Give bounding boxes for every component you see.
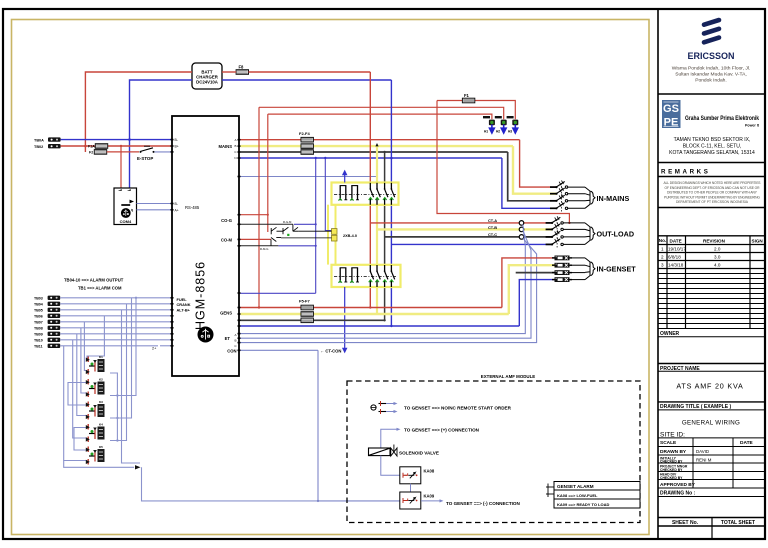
terminal TB0A [48,137,61,141]
svg-text:H1: H1 [484,130,488,134]
controller right pin ticks [238,140,241,351]
wire RS485 A+ [137,209,173,211]
title block left edge [657,9,659,539]
remarks note text [664,181,762,204]
svg-text:No.: No. [659,238,666,243]
svg-text:KA08 ==> LOW-FUEL: KA08 ==> LOW-FUEL [557,493,598,498]
alarm note text [64,278,124,291]
wire CO-G red [241,214,268,216]
wire KA09 out blue [421,500,440,502]
svg-text:PURPOSE WITHOUT PERMIT UNDERWR: PURPOSE WITHOUT PERMIT UNDERWRITING BY E… [664,195,760,199]
svg-text:TO GENSET ==> (+) CONNECTION: TO GENSET ==> (+) CONNECTION [404,427,480,432]
svg-text:DATE: DATE [670,238,682,243]
svg-text:F5-F7: F5-F7 [299,299,310,304]
wire in-genset rise A red [502,258,555,308]
wire sense loop return blue [241,292,316,294]
svg-text:DRAWING TITLE ( EXAMPLE ): DRAWING TITLE ( EXAMPLE ) [660,404,731,410]
wire genset feed vertical 2 red [267,114,269,232]
fuse F8 [236,70,248,75]
svg-text:2: 2 [661,254,664,259]
svg-text:REVISION: REVISION [703,238,726,243]
svg-text:TB03: TB03 [34,296,43,300]
wire N tap blue to coil [325,158,331,231]
wire mains A red [241,139,520,141]
wire DC- blue top [130,80,392,188]
relay KA08 [400,467,421,484]
wire red to COM4 [120,146,122,188]
svg-text:B-: B- [175,138,178,142]
svg-text:3: 3 [661,262,664,267]
wire load C black with CT [385,236,520,238]
controller left pin ticks [171,140,174,346]
wire interlock black G [241,223,293,225]
wire pole A red vertical [369,72,371,183]
border frame inner gold [12,20,650,535]
svg-text:CRANK: CRANK [177,302,191,307]
svg-text:ALL DESIGN DRAWINGS WHICH NOTE: ALL DESIGN DRAWINGS WHICH NOTED HERE ARE… [664,181,762,185]
controller right labels [219,144,237,353]
svg-text:F1: F1 [464,93,470,98]
relay KA04 [86,424,105,442]
svg-text:CHECKED BY: CHECKED BY [660,468,683,472]
wire KA08 to KA09 blue [410,484,412,492]
svg-text:ET: ET [225,336,231,341]
GSPE address [669,137,755,156]
svg-text:Wisma Pondok Indah, 10th Floor: Wisma Pondok Indah, 10th Floor, Jl. [672,66,751,72]
Ericsson address [672,66,751,84]
wire mains B yellow [241,145,514,147]
Ericsson logo [704,20,719,42]
controller USB port [198,327,214,343]
wire in-mains drop A red [520,140,557,187]
svg-text:N: N [234,156,236,160]
svg-text:ATS AMF 20 KVA: ATS AMF 20 KVA [676,382,743,391]
svg-text:R-G-M: R-G-M [283,220,292,224]
wire plus connection blue [381,429,397,448]
wire load N blue [391,243,552,245]
svg-text:B: B [234,338,236,342]
svg-text:ALT-B+: ALT-B+ [177,308,191,313]
wire CON drop to KA09 [318,350,400,501]
relay KA05 [86,447,105,465]
wire in-mains drop B yellow [513,146,557,194]
controller U1 HGM-8856 [172,116,239,376]
svg-text:F2-F4: F2-F4 [299,131,310,136]
svg-text:R-M-G: R-M-G [260,247,268,251]
switch E-STOP [137,146,155,161]
relay KA01 [86,357,105,375]
svg-text:← CT-CON: ← CT-CON [320,349,341,354]
svg-text:19/10/17: 19/10/17 [668,246,686,251]
svg-text:IN-MAINS: IN-MAINS [597,194,630,203]
controller input labels [177,297,191,313]
svg-text:GENS: GENS [220,310,232,315]
svg-text:B+: B+ [175,145,179,149]
terminal TB03..TB11 rows [34,296,43,348]
svg-text:FUEL: FUEL [177,297,188,302]
battery charger BC1 [192,63,222,89]
svg-text:SOLENOID VALVE: SOLENOID VALVE [399,451,439,456]
wire CT secondary A [241,224,526,333]
svg-text:SIGN: SIGN [752,238,764,243]
wire e-stop to controller [155,151,173,153]
controller RS-485 labels [175,202,200,212]
svg-text:MAINS: MAINS [219,144,233,149]
node junction DC blue [128,138,131,141]
svg-text:TB11: TB11 [34,344,43,348]
svg-text:14/3/18: 14/3/18 [668,262,684,267]
terminal TB02 [48,144,61,148]
svg-text:TB05: TB05 [34,308,43,312]
svg-text:TB0A: TB0A [34,138,44,142]
svg-text:DISTRIBUTED TO OTHER PEOPLE OR: DISTRIBUTED TO OTHER PEOPLE OR COMPANY W… [667,191,758,195]
wire mains N blue [241,157,502,159]
coil KM1 [332,229,338,235]
CT-A transformer [519,221,524,226]
svg-text:OUT-LOAD: OUT-LOAD [597,229,635,238]
wire in-genset rise B yellow [509,265,555,314]
lamp H1 [489,120,495,126]
wire CT secondary B [241,231,532,338]
svg-text:3.0: 3.0 [714,254,721,259]
svg-text:K3: K3 [99,400,103,404]
svg-text:BLOCK C-11, KEL. SETU,: BLOCK C-11, KEL. SETU, [683,144,742,150]
svg-text:K5: K5 [99,445,103,449]
wire genset B yellow [241,313,509,315]
svg-text:1: 1 [661,246,664,251]
coil KM2 [332,235,338,241]
svg-text:GENSET ALARM: GENSET ALARM [557,484,594,489]
svg-text:Power It: Power It [745,124,760,128]
svg-text:F1A: F1A [88,145,95,149]
wire aux arrow top blue [343,171,347,183]
wire CT secondary C [241,238,537,342]
wire genset A red [241,307,502,309]
fuse F1A [95,144,107,149]
wire battery plus red [61,145,96,147]
svg-text:EXTERNAL AMF MODULE: EXTERNAL AMF MODULE [481,374,535,379]
svg-text:OWNER: OWNER [660,331,680,337]
svg-text:SCALE: SCALE [660,440,677,446]
wire relay web blue [64,298,140,463]
svg-text:CHECKED BY: CHECKED BY [660,476,683,480]
svg-text:2.0: 2.0 [714,246,721,251]
svg-text:A: A [234,333,236,337]
wire genset N blue [241,325,520,327]
wire interlock black M [241,245,279,247]
wire load A red with CT [370,222,519,224]
svg-text:A: A [234,138,236,142]
svg-text:CO-M: CO-M [221,238,233,243]
wire lamp feed 2 red [268,114,492,119]
scale/date table [658,438,765,488]
svg-text:DAVID: DAVID [696,449,709,454]
svg-text:REMARKS: REMARKS [661,169,710,176]
svg-text:K2: K2 [99,377,103,381]
contactor KM1 poles [334,183,396,205]
svg-text:TB10: TB10 [34,338,43,342]
svg-text:TB08: TB08 [34,326,43,330]
svg-text:E-STOP: E-STOP [137,156,153,161]
lamp down arrows blue [490,125,518,134]
svg-text:CT-C: CT-C [488,232,497,237]
lamp phase tags [483,116,514,118]
svg-text:TB06: TB06 [34,314,43,318]
wire battery minus blue [61,139,172,141]
wire load bypass red [437,101,569,223]
svg-text:KA09 ==> READY TO LOAD: KA09 ==> READY TO LOAD [557,502,610,507]
svg-text:SHEET No.: SHEET No. [672,520,699,526]
wire lamp feed 1 red [259,107,504,119]
svg-text:DC24V10A: DC24V10A [196,80,218,85]
remote start contact [371,401,398,414]
wire coil column yellow [327,205,329,265]
wire in-mains drop N blue [502,158,557,208]
svg-text:H2: H2 [496,130,500,134]
svg-text:CT-B: CT-B [488,225,497,230]
wire interlock blue link [294,223,316,225]
svg-text:CO-G: CO-G [221,218,232,223]
svg-text:K1: K1 [99,355,103,359]
svg-text:COM4: COM4 [120,219,132,224]
connector IN-GENSET terminals [552,256,595,283]
wire relay to KA09 blue [142,467,319,501]
wire CON blue [241,349,319,351]
svg-text:H3: H3 [508,130,512,134]
svg-text:2XB-4.0: 2XB-4.0 [343,234,357,238]
contactor KM2 genset highlight box [332,265,401,287]
svg-text:DEPARTEMENT OF PT ERICSSON IND: DEPARTEMENT OF PT ERICSSON INDONESIA [676,200,749,204]
CT-B transformer [519,227,524,232]
svg-text:OF ENGINEERING DEPT. OF ERICSS: OF ENGINEERING DEPT. OF ERICSSON AND CAN… [665,186,761,190]
svg-text:IN-GENSET: IN-GENSET [597,264,637,273]
wire alarm rows blue [60,298,170,346]
svg-text:A+: A+ [175,208,179,212]
sheet row [658,517,765,519]
relay KA09 [400,492,421,509]
wire DC+ red top [85,72,370,152]
svg-text:CON: CON [227,348,236,353]
wire mains C black [241,151,508,153]
svg-text:4.0: 4.0 [714,262,721,267]
svg-text:TAMAN TEKNO BSD SEKTOR IX,: TAMAN TEKNO BSD SEKTOR IX, [674,137,751,143]
svg-text:TB04: TB04 [34,302,43,306]
COM4 converter box [114,188,137,225]
svg-text:F8: F8 [239,65,245,70]
fuse block F2-F4 [299,131,313,155]
wire pole N blue vertical [390,80,392,183]
controller pin labels left top [175,138,179,148]
wire RS485 B- [137,203,173,205]
contactor KM2 poles [334,265,396,287]
lamp H3 [512,120,518,126]
fuse F2 [94,150,106,155]
wire CO-M red [241,238,272,240]
svg-text:RS-485: RS-485 [185,205,200,210]
wire in-genset rise N blue [519,280,554,326]
svg-text:B-: B- [175,202,178,206]
svg-text:Pondok Indah.: Pondok Indah. [695,78,727,84]
node junction DC red [84,145,87,148]
wire alarm com bottom blue [64,461,134,468]
wire genset feed vertical red [258,107,260,307]
svg-text:B: B [234,144,236,148]
wire solenoid to KA08 blue [381,456,400,476]
wire in-genset rise C black [516,272,555,274]
svg-text:CHECKED BY: CHECKED BY [660,459,683,463]
fuse F1 [462,98,474,103]
wire aux sense blue thin [241,176,378,178]
connector OUT-LOAD breakers [546,216,595,248]
svg-text:HGM-8856: HGM-8856 [194,261,208,330]
svg-text:KA08: KA08 [424,468,435,473]
wire lamp feed 3 red via F1 [437,100,463,102]
svg-text:DRAWING No :: DRAWING No : [660,491,696,497]
svg-text:KA09: KA09 [424,494,435,499]
GSPE logo [662,100,760,129]
svg-text:GS: GS [663,103,679,115]
svg-text:TB07: TB07 [34,320,43,324]
wire in-mains drop C black [508,152,557,201]
connector IN-MAINS breakers [550,181,595,213]
contactor KM1 mains highlight box [332,183,399,205]
relay KA03 [86,402,105,420]
wire e-stop red [107,151,139,153]
svg-text:K4: K4 [99,422,103,426]
interlock contact cluster [271,224,332,246]
CT-C transformer [519,235,524,240]
svg-text:6/8/18: 6/8/18 [668,254,681,259]
relay KA02 [86,379,105,397]
svg-text:TO GENSET ==> NO/NC REMOTE STA: TO GENSET ==> NO/NC REMOTE START ORDER [404,406,512,411]
external AMF module dashed box [347,381,640,523]
wire pole B yellow vertical [376,146,378,182]
svg-text:TB04-10 ==> ALARM OUTPUT: TB04-10 ==> ALARM OUTPUT [64,278,124,283]
svg-text:DATE: DATE [740,440,754,446]
wire N tap blue to interlock loop [315,158,317,293]
svg-text:Graha Sumber Prima Elektronik: Graha Sumber Prima Elektronik [685,115,759,122]
valve SOLENOID [369,445,398,457]
svg-text:RENI M: RENI M [696,457,712,462]
fuse block F5-F7 [299,299,313,323]
svg-text:TOTAL SHEET: TOTAL SHEET [721,520,755,526]
svg-text:TB09: TB09 [34,332,43,336]
table GENSET ALARM [546,482,640,509]
wire load B yellow with CT [377,228,520,230]
revision table [658,236,765,269]
svg-text:TB02: TB02 [34,145,43,149]
svg-text:↯: ↯ [131,208,134,212]
lamp H2 [501,120,507,126]
svg-text:DRAWN BY: DRAWN BY [660,449,687,455]
wire pole C black vertical [384,152,386,183]
svg-text:APPROVED BY: APPROVED BY [660,482,696,488]
svg-text:Sultan Iskandar Muda Kav. V-TA: Sultan Iskandar Muda Kav. V-TA, [675,72,747,78]
svg-text:CT-A: CT-A [488,218,497,223]
svg-text:ERICSSON: ERICSSON [687,51,734,61]
svg-text:TO GENSET ==> (-) CONNECTION: TO GENSET ==> (-) CONNECTION [446,501,520,506]
svg-text:F2: F2 [89,150,93,154]
wire genset C black [241,319,385,321]
svg-text:TB1 ==> ALARM COM: TB1 ==> ALARM COM [78,286,122,291]
wire aux arrow bottom blue [343,287,347,352]
svg-text:GENERAL WIRING: GENERAL WIRING [682,420,740,427]
svg-text:KOTA TANGERANG SELATAN, 15314: KOTA TANGERANG SELATAN, 15314 [669,150,755,156]
